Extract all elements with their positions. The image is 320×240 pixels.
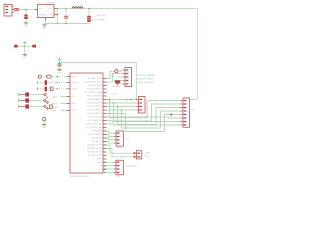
svg-text:C1: C1 (29, 16, 32, 18)
junction gnd rail (57, 23, 59, 25)
X7 pin 4 stub (180, 110, 183, 112)
X7 pad 2 (184, 103, 187, 104)
wire IC2 to X6 pin 3 (104, 168, 114, 170)
IC2 right pin 23 (103, 155, 107, 157)
wire R1 to LED D1 (29, 94, 44, 96)
X7 pad 6 (184, 117, 187, 118)
resistor R2 (25, 98, 29, 102)
X2 pad 5 (126, 83, 129, 84)
wire OUT-FB tie vertical (57, 9, 59, 24)
crystal Q1 (50, 87, 53, 91)
IC2 right pin 27 (103, 169, 107, 171)
capacitor C4 (14, 45, 17, 48)
svg-text:PF0 (ADC0): PF0 (ADC0) (92, 137, 103, 140)
X2 pin 5 stub (123, 83, 125, 85)
wire VCC rail down to X3 (136, 63, 138, 100)
svg-text:PB0 (SS/PCINT0): PB0 (SS/PCINT0) (87, 78, 102, 80)
wire staircase 4 to X7 (122, 110, 181, 128)
junction X6 net 4 (104, 172, 106, 174)
wire C1 to ground (25, 19, 27, 23)
IC2 right pin 8 (103, 102, 107, 104)
IC2 right pin 2 (103, 81, 107, 83)
IC1 OUT pin stub (54, 8, 58, 10)
node net arrow row 1 (18, 93, 20, 96)
X7 pad 8 (184, 124, 187, 125)
F2 lead down (117, 84, 119, 86)
X3 pad 4 (139, 109, 142, 110)
wire staircase 3 to X7 (118, 107, 181, 125)
resistor R1 lead (20, 94, 25, 96)
IC2 right pin 13 (103, 120, 107, 122)
X3 pin 3 stub (136, 106, 138, 108)
X4 pin 3 stub (114, 139, 116, 141)
IC2 right pin 26 (103, 165, 107, 167)
svg-text:C2: C2 (69, 15, 72, 17)
junction OUT (57, 8, 59, 10)
junction X6 net 1 (104, 161, 106, 163)
svg-text:AREF: AREF (97, 158, 103, 161)
IC2 right pin 25 (103, 162, 107, 164)
X5 pin 1 contact (134, 152, 136, 154)
wire 5V into X7 (190, 99, 198, 101)
IC2 right pin 18 (103, 137, 107, 139)
wire ground rail (45, 22, 90, 24)
svg-text:EEE 100u: EEE 100u (97, 15, 106, 17)
wire down to C1 (25, 10, 27, 15)
svg-text:VIN: VIN (39, 8, 43, 10)
junction sq XTAL2 (57, 82, 58, 83)
pushbutton S1 cap (38, 75, 41, 78)
IC2 right pin 11 (103, 113, 107, 115)
wire X2 pin3 (118, 76, 123, 78)
X1 pad 3 (5, 12, 8, 13)
junction X4 net 2 (104, 134, 106, 136)
wire SCK stub (61, 110, 67, 112)
wire C3 bottom to rail (88, 22, 90, 24)
transistor Q2 (43, 117, 46, 120)
X3 pad 3 (139, 106, 142, 107)
IC2 right pin 12 (103, 116, 107, 118)
IC2 right pin 6 (103, 95, 107, 97)
wire IC2 to X6 pin 4 (104, 171, 114, 173)
X5 pin 2 contact (134, 156, 136, 158)
wire to X7 pin7 (107, 121, 181, 122)
X2 pad 1 (126, 69, 129, 70)
wire MOSI stub (61, 96, 67, 98)
wire 5V top rail (58, 8, 198, 10)
wire fuse to IC1 VIN (19, 9, 35, 11)
wire R2 to LED D2 (29, 100, 44, 102)
wire LED stack vertical (44, 96, 46, 118)
capacitor C5b (32, 45, 36, 48)
svg-text:L1: L1 (72, 4, 75, 6)
X2 pad 3 (126, 76, 129, 77)
LED D2 arrow (46, 102, 48, 104)
LED D3 (44, 105, 46, 107)
X7 pin 7 stub (180, 121, 183, 123)
junction VCC rail (59, 62, 61, 64)
junction X4 net 4 (104, 141, 106, 143)
svg-text:PF5 (ADC5/TMS): PF5 (ADC5/TMS) (87, 147, 102, 150)
node net arrow row 2 (18, 99, 20, 102)
X1 pad 2 (5, 9, 8, 10)
X7 pad 4 (184, 110, 187, 111)
svg-text:SCL 3: SCL 3 (145, 156, 151, 158)
junction drop 2 (113, 102, 115, 104)
wire long bottom to X7 pin5 (107, 114, 181, 132)
svg-text:PD7 (T0/ADC10): PD7 (T0/ADC10) (88, 119, 103, 122)
junction X4 net 3 (104, 137, 106, 139)
X7 pad 1 (184, 100, 187, 101)
IC2 left pin XTAL2 (67, 82, 71, 84)
node label flag (170, 113, 172, 116)
capacitor C3 (polarized) (87, 16, 91, 22)
svg-text:X2: X2 (125, 65, 128, 67)
ground (22, 55, 27, 60)
fuse F2 polyfuse (114, 80, 120, 83)
X4 pad 2 (117, 136, 120, 137)
LED D3 arrow b (47, 107, 49, 109)
svg-text:RESET: RESET (71, 76, 78, 78)
X1 pad 1 (5, 6, 8, 7)
svg-text:GND: GND (111, 76, 116, 78)
svg-text:UCAP: UCAP (97, 161, 103, 164)
IC2 left pin AVCC (67, 103, 71, 105)
wire IC2 to X3 pin 4 (107, 109, 137, 111)
wire R3 to LED D3 (29, 106, 44, 108)
junction on X3 net1b (130, 99, 132, 101)
X1 pin 2 stub (12, 9, 14, 11)
X2 pin 4 stub (123, 80, 125, 82)
svg-text:PD5 (XCK1/CTS): PD5 (XCK1/CTS) (87, 113, 102, 115)
X4 pad 4 (117, 143, 120, 144)
wire staircase 1 to X7 (110, 100, 181, 118)
junction SCL (104, 148, 106, 150)
svg-text:PB3 (PDO/MISO): PB3 (PDO/MISO) (87, 89, 102, 91)
fuse F1 (14, 8, 19, 10)
IC2 left pin UVCC (67, 110, 71, 112)
IC2 right pin 1 (103, 78, 107, 80)
wire VCC stub (59, 60, 61, 63)
X3 pad 1 (139, 99, 142, 100)
IC2 left pin XTAL1 (67, 88, 71, 90)
resistor R4 (49, 105, 52, 108)
svg-text:PD3 (TXD1/INT3): PD3 (TXD1/INT3) (87, 106, 102, 108)
capacitor C2 (64, 16, 68, 19)
op-amp/regulator IC1 body (38, 5, 55, 18)
LED D2 arrow b (47, 101, 49, 103)
junction X6 net 3 (104, 168, 106, 170)
svg-text:GND: GND (42, 127, 47, 129)
svg-text:100u: 100u (92, 20, 96, 22)
svg-text:F1: F1 (13, 5, 16, 7)
wire IC2 to X3 pin 3 (107, 106, 137, 108)
svg-text:AVCC: AVCC (71, 102, 77, 105)
svg-text:PE6 (INT6/AIN0): PE6 (INT6/AIN0) (88, 133, 103, 136)
node tick XTAL1 (36, 88, 38, 90)
node VCC supply arrow 2 (58, 59, 61, 61)
svg-text:WS2812: WS2812 (117, 148, 124, 150)
wire RESET net (51, 76, 66, 78)
pushbutton S1 body (46, 75, 51, 78)
X7 pin 5 stub (180, 114, 183, 116)
connector X5 I2C (137, 151, 142, 159)
wire 5V right vertical (196, 9, 198, 100)
X2 pad 4 (126, 80, 129, 81)
X4 pad 3 (117, 139, 120, 140)
wire XTAL1 net (38, 88, 67, 90)
X7 pin 1 stub (180, 100, 183, 102)
X4 pin 2 stub (114, 136, 116, 138)
svg-text:POWERLED: POWERLED (126, 166, 137, 168)
svg-text:C5: C5 (37, 46, 39, 48)
junction FB (57, 14, 59, 16)
X2 pin 1 stub (123, 69, 125, 71)
X2 pin 2 stub (123, 73, 125, 75)
LED2 (115, 70, 118, 73)
svg-text:MSMF050: MSMF050 (113, 86, 121, 88)
svg-text:D+: D+ (99, 169, 102, 171)
X6 pad 2 (117, 165, 120, 166)
svg-text:VCC: VCC (71, 96, 76, 98)
svg-text:ATMEGA32U4-AU: ATMEGA32U4-AU (71, 175, 89, 178)
svg-text:PF7 (ADC7/TDI): PF7 (ADC7/TDI) (88, 154, 102, 157)
svg-text:PD0 (OC0B/INT0): PD0 (OC0B/INT0) (87, 96, 103, 98)
wire C5 to gnd (59, 66, 61, 69)
svg-text:GND: GND (57, 72, 62, 74)
wire SCL to X5 (107, 149, 134, 157)
svg-text:PE2 (HWB): PE2 (HWB) (92, 131, 102, 133)
svg-text:16V SMD: 16V SMD (97, 20, 106, 22)
X2 pin 3 stub (123, 76, 125, 78)
X4 pin 4 stub (114, 142, 116, 144)
svg-text:MISO: MISO (53, 103, 58, 105)
wire IC2 to X4 pin 1 (107, 131, 114, 133)
junction drop 3 (117, 106, 119, 108)
ground (42, 25, 47, 30)
IC2 right pin 22 (103, 151, 107, 153)
svg-text:D-: D- (100, 166, 102, 168)
X5 pin 2 stub (134, 156, 137, 158)
resistor R2 lead (20, 100, 25, 102)
svg-text:USB-GND 3 BLCK: USB-GND 3 BLCK (138, 82, 155, 84)
wire IC2 to X4 pin 3 (107, 138, 114, 140)
X6 pad 1 (117, 162, 120, 163)
wire IC2 to LED2 (107, 71, 115, 78)
IC2 right pin 16 (103, 130, 107, 132)
svg-text:PC6 (OC3A/OC4A): PC6 (OC3A/OC4A) (86, 123, 103, 126)
wire XTAL2 net (38, 82, 67, 84)
connector X7 (183, 98, 190, 127)
IC2 right pin 20 (103, 144, 107, 146)
ground (24, 23, 29, 28)
svg-text:PF4 (ADC4/TCK): PF4 (ADC4/TCK) (87, 144, 102, 147)
IC2 left pin VCC (67, 96, 71, 98)
svg-text:PC7 (ICP3/OC4A): PC7 (ICP3/OC4A) (86, 126, 102, 129)
capacitor C1 (polarized) (24, 15, 27, 20)
X6 pin 1 stub (114, 161, 116, 163)
IC2 right pin 17 (103, 134, 107, 136)
ground (57, 70, 62, 75)
connector X6 (116, 160, 123, 174)
wire IC2 to X6 pin 2 (104, 165, 114, 167)
wire VCC rail over IC (60, 62, 137, 64)
junction drop 1 (109, 99, 111, 101)
X1 pin 3 stub (12, 12, 14, 14)
connector X4 LED (116, 131, 123, 146)
junction C2 gnd (65, 23, 67, 25)
IC2 left pin RESET (67, 76, 71, 78)
capacitor C7 (45, 87, 47, 92)
IC2 right pin 3 (103, 85, 107, 87)
capacitor C6 (45, 80, 47, 85)
svg-text:ON/OFF: ON/OFF (39, 14, 47, 16)
X7 pin 3 stub (180, 107, 183, 109)
wire to C3 top (88, 9, 90, 16)
IC2 right pin 9 (103, 106, 107, 108)
X3 pin 4 stub (136, 109, 138, 111)
wire S1 link (41, 76, 46, 78)
IC2 right pin 10 (103, 109, 107, 111)
wire SDA to X5 (107, 145, 134, 153)
X5 pad 1 (137, 153, 140, 154)
wire IC1 gnd to rail (45, 21, 47, 24)
junction C2 top (65, 8, 67, 10)
wire C4-C5 net (17, 45, 33, 47)
svg-text:SCK: SCK (53, 110, 58, 112)
X4 pin 1 stub (114, 132, 116, 134)
svg-text:PB2 (PDI/MOSI): PB2 (PDI/MOSI) (88, 85, 102, 87)
inductor L1 (72, 7, 83, 9)
IC2 right pin 21 (103, 148, 107, 150)
X3 pin 1 stub (136, 99, 138, 101)
wire IC2 to X4 pin 4 (107, 142, 114, 144)
LED D2 (44, 99, 46, 101)
junction VIN node (25, 9, 27, 11)
wire IC2 to X2 pin2 (107, 74, 123, 83)
X6 pad 4 (117, 172, 120, 173)
svg-text:D3: D3 (113, 67, 115, 69)
wire Q2 to gnd (43, 121, 45, 125)
wire rail to gnd symbol (44, 23, 46, 24)
wire VCC to gnd (24, 43, 26, 54)
svg-text:OUT: OUT (48, 8, 53, 10)
svg-text:33uH: 33uH (77, 4, 82, 6)
wire IC2 to X3 pin 1 (107, 99, 137, 101)
IC2 right pin 24 (103, 158, 107, 160)
junction sq RESET (57, 76, 58, 77)
svg-text:GND: GND (22, 57, 27, 59)
svg-text:PD1 (SDA/INT1): PD1 (SDA/INT1) (88, 98, 102, 101)
capacitor C5 (57, 64, 61, 67)
X3 pad 2 (139, 102, 142, 103)
X2 pad 2 (126, 73, 129, 74)
IC2 right pin 15 (103, 127, 107, 129)
svg-text:C4: C4 (14, 50, 16, 52)
resistor R3 (25, 104, 29, 108)
wire X2 pin4 (121, 80, 123, 82)
IC1 FB pin stub (54, 14, 58, 16)
wire IC2 to X4 pin 2 (107, 135, 114, 137)
wire IC2 to X6 pin 1 (104, 161, 114, 163)
X7 pin 2 stub (180, 103, 183, 105)
junction C3 top (88, 8, 90, 10)
resistor R1 (25, 92, 29, 96)
junction X6 net 2 (104, 165, 106, 167)
IC1 GND pin stub (45, 18, 47, 21)
X6 pin 4 stub (114, 171, 116, 173)
junction C4 node (24, 45, 26, 47)
junction sq XTAL1 (57, 88, 58, 89)
junction drop 4 (121, 109, 123, 111)
svg-text:PB7 (PCINT7/OC0A): PB7 (PCINT7/OC0A) (84, 91, 102, 94)
IC2 right pin 19 (103, 141, 107, 143)
svg-text:C3: C3 (92, 17, 95, 19)
wire to C2 top (65, 9, 67, 16)
LED D1 arrow (46, 97, 48, 99)
wire C2 bottom to rail (65, 19, 67, 24)
X7 pad 3 (184, 107, 187, 108)
wire LED2 to X2 pin1 (118, 70, 123, 71)
X3 pin 2 stub (136, 102, 138, 104)
LED D3 arrow (46, 108, 48, 110)
X7 pad 7 (184, 121, 187, 122)
IC2 right pin 14 (103, 123, 107, 125)
svg-text:UVCC: UVCC (71, 110, 77, 112)
X4 pad 1 (117, 133, 120, 134)
svg-text:GND: GND (24, 25, 29, 27)
svg-text:MOSI: MOSI (53, 96, 58, 98)
junction X4 net 1 (104, 130, 106, 132)
svg-text:LED: LED (126, 139, 130, 141)
svg-text:XTAL2: XTAL2 (71, 81, 77, 84)
connector X1 power input (4, 5, 12, 17)
svg-text:JP2: JP2 (117, 176, 120, 178)
svg-text:GND: GND (42, 28, 47, 30)
node net arrow row 3 (18, 105, 20, 108)
X6 pin 2 stub (114, 165, 116, 167)
connector X2 USB (125, 68, 132, 87)
node tick XTAL2 (36, 81, 38, 83)
svg-text:PD4 (ICP1/ADC8): PD4 (ICP1/ADC8) (87, 109, 103, 112)
X6 pad 3 (117, 168, 120, 169)
svg-text:PF6 (ADC6/TDO): PF6 (ADC6/TDO) (87, 151, 102, 154)
LED D1 (44, 93, 46, 95)
IC2 right pin 4 (103, 88, 107, 90)
X7 pin 8 stub (180, 124, 183, 126)
junction on X3 net1 (126, 99, 128, 101)
IC2 right pin 5 (103, 92, 107, 94)
X5 pin 1 stub (134, 152, 137, 154)
svg-text:500mA: 500mA (111, 93, 117, 96)
junction SDA (104, 144, 106, 146)
X6 pin 3 stub (114, 168, 116, 170)
svg-text:USB-DP 2 WHITE: USB-DP 2 WHITE (138, 78, 155, 80)
svg-text:SDA 2: SDA 2 (145, 152, 152, 155)
wire MISO stub (61, 103, 67, 105)
X5 pad 2 (137, 156, 140, 157)
microcontroller IC2 body (70, 73, 103, 173)
connector X3 (139, 97, 146, 114)
wire to X7 pin8 (107, 124, 181, 125)
svg-text:BC847: BC847 (53, 107, 58, 109)
wire X2 pin5 (120, 83, 123, 85)
svg-text:PD2 (RXD1/INT2): PD2 (RXD1/INT2) (87, 103, 102, 105)
wire IC2 to X3 pin 2 (107, 102, 137, 104)
X7 pad 5 (184, 114, 187, 115)
svg-text:SV1: SV1 (191, 109, 194, 111)
IC2 right pin 7 (103, 99, 107, 101)
